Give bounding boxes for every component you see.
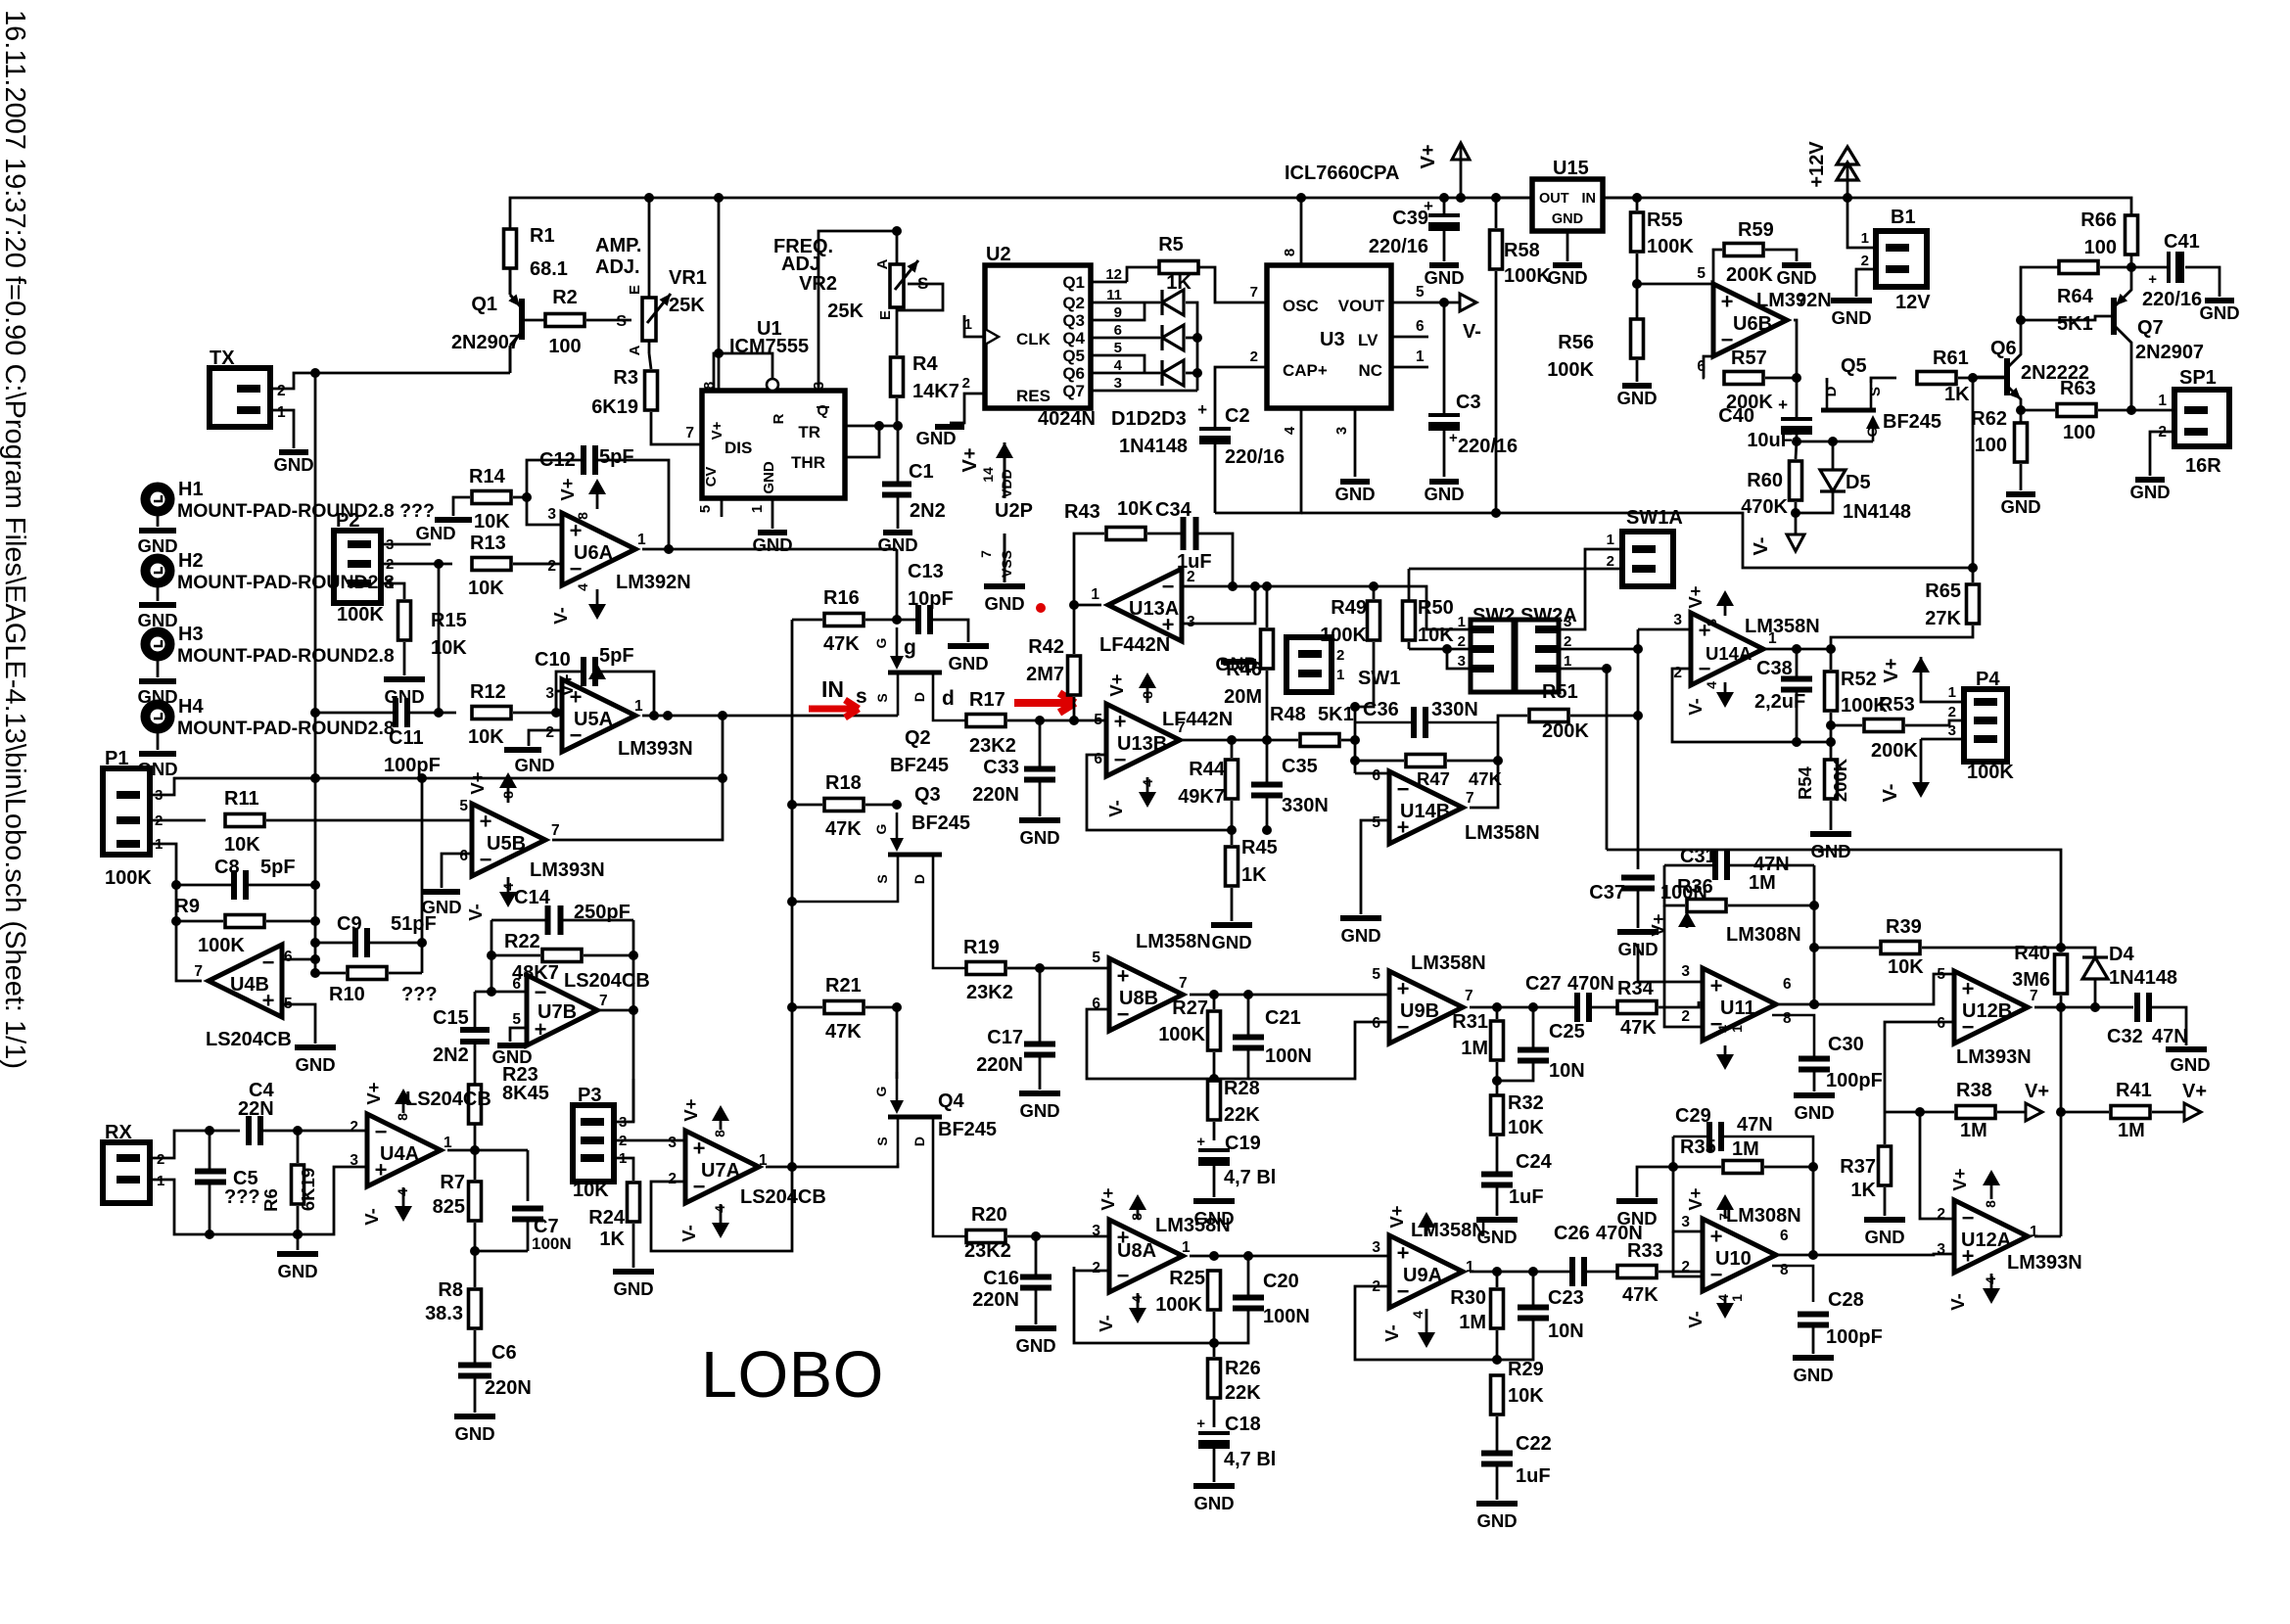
- svg-text:C29: C29: [1675, 1105, 1711, 1127]
- svg-text:GND: GND: [2199, 302, 2239, 323]
- supply V- U14A: [1724, 682, 1727, 693]
- svg-text:1: 1: [1729, 1025, 1745, 1033]
- pin U14B.5 gnd: [1361, 820, 1389, 914]
- svg-text:Q1: Q1: [1062, 273, 1085, 292]
- resistor R32 10K: [1491, 1095, 1504, 1135]
- svg-text:1: 1: [1336, 667, 1344, 683]
- svg-text:LM393N: LM393N: [530, 859, 605, 881]
- supply V- U5B (pin4): [507, 877, 510, 893]
- svg-text:1uF: 1uF: [1509, 1186, 1544, 1208]
- svg-text:10K: 10K: [1508, 1117, 1544, 1138]
- svg-text:C16: C16: [983, 1268, 1019, 1289]
- mount pad H2: [146, 559, 170, 583]
- op-amp U7B LS204CB: [527, 975, 597, 1045]
- svg-text:R49: R49: [1331, 597, 1367, 619]
- svg-text:47N: 47N: [1737, 1114, 1773, 1136]
- svg-text:200K: 200K: [1542, 720, 1589, 742]
- svg-text:ICL7660CPA: ICL7660CPA: [1285, 162, 1399, 184]
- resistor R42 2M7: [1068, 656, 1081, 695]
- supply V+ P4: [1912, 657, 1930, 673]
- svg-text:GND: GND: [415, 523, 455, 543]
- svg-text:GND: GND: [984, 593, 1024, 614]
- wire U8A.2 to R25 node: [1073, 1267, 1076, 1271]
- svg-text:GND: GND: [1015, 1335, 1055, 1356]
- supply V- U6A: [596, 589, 599, 605]
- svg-text:100K: 100K: [1155, 1294, 1202, 1316]
- svg-text:R5: R5: [1158, 234, 1184, 255]
- svg-text:V+: V+: [363, 1082, 384, 1104]
- wire U13A out: [1074, 604, 1101, 607]
- svg-text:R11: R11: [224, 788, 259, 810]
- svg-text:VSS: VSS: [999, 550, 1014, 578]
- svg-text:C35: C35: [1282, 756, 1318, 777]
- svg-text:V-: V-: [1381, 1324, 1402, 1341]
- svg-text:+: +: [1197, 400, 1207, 419]
- resistor R9 100K: [225, 915, 264, 928]
- svg-text:+: +: [480, 810, 492, 834]
- wire TX pin2 to Q1 collector: [270, 373, 510, 389]
- svg-text:C40: C40: [1718, 405, 1754, 427]
- svg-text:7: 7: [1716, 1213, 1732, 1221]
- wire U8A out: [1190, 1255, 1214, 1258]
- wire P2.1 to R15: [381, 583, 404, 599]
- svg-text:R53: R53: [1879, 694, 1915, 716]
- svg-text:GND: GND: [514, 755, 554, 775]
- svg-text:49K7: 49K7: [1178, 786, 1225, 808]
- svg-text:10K: 10K: [573, 1180, 609, 1201]
- svg-text:LF442N: LF442N: [1162, 709, 1233, 730]
- svg-text:4: 4: [395, 1188, 410, 1196]
- svg-text:C1: C1: [909, 461, 934, 483]
- resistor R52 100K: [1825, 672, 1838, 711]
- svg-text:2: 2: [350, 1119, 358, 1136]
- svg-text:2: 2: [1336, 647, 1344, 664]
- svg-text:BF245: BF245: [1883, 411, 1941, 433]
- svg-text:R28: R28: [1224, 1078, 1260, 1099]
- svg-text:8: 8: [1783, 1010, 1792, 1027]
- svg-text:220N: 220N: [972, 1289, 1019, 1311]
- svg-text:10uF: 10uF: [1747, 430, 1793, 451]
- svg-text:16R: 16R: [2185, 455, 2221, 477]
- pin U8B.6 feedback: [1087, 1009, 1214, 1079]
- svg-text:V+: V+: [1098, 1187, 1118, 1210]
- wire U9B out: [1470, 1006, 1574, 1009]
- wire U6A out: [642, 548, 897, 551]
- svg-text:6: 6: [1416, 318, 1425, 335]
- svg-text:GND: GND: [1810, 841, 1850, 861]
- svg-text:100K: 100K: [1504, 265, 1551, 287]
- resistor R53 200K: [1864, 719, 1903, 732]
- svg-text:10K: 10K: [1888, 956, 1924, 978]
- svg-text:V+: V+: [1418, 144, 1439, 168]
- svg-text:6: 6: [1780, 1228, 1789, 1244]
- svg-text:5: 5: [512, 1011, 521, 1028]
- svg-text:R32: R32: [1508, 1092, 1544, 1114]
- resistor R10 ???: [348, 967, 387, 980]
- svg-text:1M: 1M: [1960, 1120, 1987, 1141]
- capacitor C25 10N: [1518, 1050, 1549, 1061]
- op-amp U13A LF442N: [1108, 569, 1182, 641]
- svg-text:C41: C41: [2164, 231, 2200, 253]
- svg-text:SW1A: SW1A: [1626, 507, 1683, 529]
- svg-text:S: S: [616, 313, 627, 330]
- resistor R58: [1490, 230, 1503, 269]
- svg-text:1: 1: [637, 532, 646, 548]
- svg-text:1K: 1K: [1850, 1180, 1876, 1201]
- svg-text:11: 11: [1106, 287, 1122, 303]
- svg-text:NC: NC: [1358, 361, 1382, 380]
- resistor R35 1M: [1723, 1161, 1762, 1174]
- svg-text:C30: C30: [1828, 1034, 1864, 1055]
- svg-text:1: 1: [1948, 684, 1956, 701]
- svg-text:3: 3: [545, 685, 554, 702]
- svg-text:R26: R26: [1225, 1358, 1261, 1379]
- op-amp U4B LS204CB: [209, 945, 282, 1017]
- svg-text:−: −: [262, 951, 275, 975]
- wire P1.1 down: [150, 844, 176, 921]
- wire C1 node down to Q2 gate: [896, 549, 899, 620]
- ic U1 ICM7555: [702, 391, 845, 498]
- wire RX.1 bottom line: [150, 1167, 367, 1234]
- svg-text:R62: R62: [1971, 408, 2007, 430]
- svg-text:9: 9: [1114, 304, 1122, 321]
- svg-text:+: +: [693, 1137, 706, 1161]
- svg-text:U10: U10: [1715, 1248, 1752, 1270]
- svg-text:V-: V-: [361, 1208, 382, 1225]
- svg-text:2N2: 2N2: [910, 500, 946, 522]
- svg-text:SW1: SW1: [1358, 668, 1400, 689]
- svg-text:+: +: [1114, 710, 1127, 734]
- wire Q5 drain: [1826, 378, 1829, 383]
- svg-text:100: 100: [1975, 435, 2007, 456]
- vertical node x322 (C8/R9/C9/U4B): [314, 373, 317, 973]
- svg-text:4,7 Bl: 4,7 Bl: [1224, 1449, 1276, 1470]
- svg-text:1M: 1M: [1732, 1138, 1759, 1160]
- svg-text:8: 8: [1282, 249, 1298, 256]
- pin U4B.5 wire to gnd: [282, 1004, 315, 1044]
- svg-text:1: 1: [2158, 393, 2167, 409]
- svg-text:R17: R17: [969, 689, 1005, 711]
- svg-text:R50: R50: [1418, 597, 1454, 619]
- resistor R46 20M: [1261, 629, 1274, 669]
- wire U14A out: [1763, 648, 1831, 651]
- svg-text:VR2: VR2: [799, 273, 837, 295]
- svg-text:2: 2: [1948, 704, 1956, 720]
- svg-text:7: 7: [1798, 293, 1806, 309]
- wire U6B out: [1794, 320, 1797, 378]
- wire U14B out: [1470, 761, 1498, 808]
- svg-text:7: 7: [1466, 790, 1474, 807]
- svg-text:R56: R56: [1558, 332, 1594, 353]
- svg-text:OUT: OUT: [1539, 191, 1569, 207]
- wire Q6 collector to Q7 base: [2021, 316, 2111, 320]
- resistor R45 1K: [1226, 847, 1238, 886]
- pin U3.2 CAP+: [1215, 367, 1267, 419]
- svg-text:4,7 Bl: 4,7 Bl: [1224, 1167, 1276, 1188]
- svg-text:8: 8: [1129, 1213, 1145, 1221]
- svg-text:+: +: [1424, 197, 1433, 215]
- resistor R7 825: [469, 1182, 482, 1221]
- svg-text:220/16: 220/16: [1458, 436, 1518, 457]
- resistor R61: [1917, 372, 1956, 385]
- svg-text:5pF: 5pF: [260, 857, 296, 878]
- svg-text:10K: 10K: [431, 637, 467, 659]
- supply V+ U13B: [1146, 687, 1149, 703]
- svg-text:1K: 1K: [1166, 272, 1192, 294]
- svg-text:CLK: CLK: [1016, 330, 1052, 348]
- svg-text:6: 6: [1783, 976, 1792, 993]
- svg-text:R43: R43: [1064, 501, 1100, 523]
- svg-text:U9B: U9B: [1400, 1000, 1439, 1022]
- svg-text:1: 1: [444, 1135, 452, 1151]
- svg-text:GND: GND: [915, 428, 956, 448]
- svg-text:LS204CB: LS204CB: [206, 1029, 292, 1050]
- svg-text:12: 12: [1105, 266, 1122, 283]
- svg-text:D1D2D3: D1D2D3: [1111, 408, 1187, 430]
- resistor R30 1M: [1491, 1289, 1504, 1328]
- svg-text:V-: V-: [1947, 1293, 1968, 1310]
- svg-text:825: 825: [433, 1196, 465, 1218]
- svg-text:6: 6: [1372, 1015, 1380, 1032]
- svg-text:1: 1: [634, 698, 643, 715]
- svg-text:GND: GND: [761, 461, 777, 494]
- svg-text:GND: GND: [752, 534, 792, 555]
- svg-text:47N: 47N: [2152, 1026, 2188, 1047]
- svg-text:C26: C26: [1554, 1223, 1590, 1244]
- pin U10.8 comp to C28: [1772, 1266, 1813, 1302]
- svg-text:8K45: 8K45: [502, 1083, 549, 1104]
- svg-text:TR: TR: [798, 423, 820, 441]
- svg-text:C37: C37: [1589, 882, 1625, 904]
- wires U15: [1496, 197, 1532, 200]
- svg-text:8: 8: [1780, 1262, 1789, 1278]
- svg-text:25K: 25K: [827, 301, 864, 322]
- pin U13B.5: [1074, 719, 1106, 722]
- pin U3.1: [1391, 366, 1428, 369]
- resistor R55: [1631, 212, 1644, 252]
- ground C41: [2205, 298, 2234, 303]
- svg-text:U4A: U4A: [380, 1143, 419, 1165]
- svg-text:CV: CV: [703, 467, 720, 487]
- svg-text:5: 5: [1937, 966, 1945, 983]
- svg-text:GND: GND: [1211, 932, 1251, 952]
- svg-text:8: 8: [575, 512, 590, 520]
- svg-text:S: S: [874, 874, 890, 883]
- svg-text:LM358N: LM358N: [1465, 822, 1540, 844]
- svg-text:V+: V+: [557, 478, 578, 500]
- wire R55-R56 junction to U6B+: [1637, 283, 1713, 286]
- svg-text:R61: R61: [1933, 348, 1969, 369]
- svg-text:LM358N: LM358N: [1136, 931, 1211, 952]
- svg-text:−: −: [1162, 575, 1175, 599]
- resistor R11 10K: [225, 814, 264, 827]
- supply V+ R41: [2184, 1103, 2201, 1121]
- svg-text:R13: R13: [470, 533, 506, 554]
- svg-text:100K: 100K: [1547, 359, 1594, 381]
- svg-text:s: s: [856, 685, 867, 708]
- svg-text:10K: 10K: [474, 511, 510, 533]
- svg-text:R41: R41: [2116, 1080, 2152, 1101]
- svg-text:100: 100: [2084, 237, 2117, 258]
- svg-text:C24: C24: [1516, 1151, 1553, 1173]
- svg-text:C21: C21: [1265, 1007, 1301, 1029]
- transistor Q7 2N2907: [2111, 298, 2117, 335]
- svg-text:C18: C18: [1225, 1414, 1261, 1435]
- svg-text:220N: 220N: [972, 784, 1019, 806]
- wire P2.2 to R13: [381, 563, 452, 566]
- wire P2.3 stub: [381, 543, 431, 546]
- svg-text:V-: V-: [678, 1225, 699, 1241]
- op-amp U12B LM393N: [1954, 971, 2028, 1044]
- pin U13A.2 wire: [1182, 585, 1233, 588]
- resistor R2: [545, 314, 584, 327]
- svg-text:23K2: 23K2: [964, 1240, 1011, 1262]
- transistor Q6 2N2222: [2004, 358, 2010, 395]
- svg-text:BF245: BF245: [890, 755, 949, 776]
- svg-text:V+: V+: [2182, 1081, 2207, 1102]
- svg-text:R40: R40: [2014, 943, 2050, 964]
- svg-text:C6: C6: [491, 1342, 517, 1364]
- svg-text:R19: R19: [963, 937, 1000, 958]
- svg-text:U5B: U5B: [487, 833, 526, 855]
- resistor R54 200K: [1825, 760, 1838, 799]
- svg-text:V+: V+: [1386, 1205, 1407, 1228]
- svg-text:LM308N: LM308N: [1726, 924, 1801, 946]
- capacitor C17 220N: [1039, 968, 1042, 1044]
- svg-text:U14B: U14B: [1400, 801, 1450, 822]
- resistor R23 8K45: [469, 1085, 482, 1124]
- pin U6B.6 and R57: [1704, 356, 1713, 378]
- resistor R25 100K: [1208, 1271, 1221, 1310]
- svg-text:+12V: +12V: [1806, 141, 1828, 188]
- svg-text:−: −: [1397, 777, 1410, 802]
- svg-text:MOUNT-PAD-ROUND2.8: MOUNT-PAD-ROUND2.8: [177, 645, 395, 667]
- resistor R57: [1724, 372, 1763, 385]
- svg-text:D5: D5: [1846, 472, 1871, 493]
- svg-text:C25: C25: [1549, 1021, 1585, 1043]
- svg-text:U12B: U12B: [1962, 1000, 2012, 1022]
- svg-text:1: 1: [1607, 532, 1614, 548]
- svg-text:R6: R6: [260, 1188, 281, 1212]
- pin U11.3 wire: [1638, 944, 1703, 982]
- svg-text:R55: R55: [1647, 209, 1683, 231]
- svg-text:GND: GND: [1334, 484, 1375, 504]
- svg-text:Q2: Q2: [1062, 294, 1085, 312]
- connector SW1: [1286, 637, 1332, 692]
- svg-text:4: 4: [1140, 779, 1155, 787]
- svg-text:10K: 10K: [468, 578, 504, 599]
- supply V+ U6A: [596, 493, 599, 509]
- svg-text:VR1: VR1: [669, 267, 707, 289]
- svg-text:R57: R57: [1731, 348, 1767, 369]
- pin U7A.2 feedback: [651, 1167, 792, 1251]
- svg-text:B1: B1: [1891, 207, 1916, 228]
- supply V- U9A: [1425, 1309, 1428, 1333]
- svg-text:470K: 470K: [1741, 496, 1788, 518]
- svg-text:+: +: [1196, 1415, 1205, 1432]
- resistor R27 100K: [1208, 1011, 1221, 1050]
- svg-text:GND: GND: [613, 1278, 653, 1299]
- svg-text:R24: R24: [588, 1207, 626, 1229]
- svg-text:2M7: 2M7: [1026, 664, 1064, 685]
- svg-text:−: −: [1962, 1206, 1975, 1230]
- ground U2: [935, 424, 964, 430]
- svg-text:GND: GND: [1794, 1102, 1834, 1123]
- pin U3.5 VOUT: [1391, 302, 1459, 304]
- svg-text:1M: 1M: [1749, 872, 1776, 894]
- svg-text:MOUNT-PAD-ROUND2.8: MOUNT-PAD-ROUND2.8: [177, 718, 395, 739]
- svg-text:6K19: 6K19: [298, 1168, 318, 1211]
- svg-text:7: 7: [194, 963, 203, 980]
- pin U14B.6: [1355, 772, 1389, 775]
- pin U1.5 stub: [721, 498, 724, 517]
- svg-text:2: 2: [1681, 1259, 1690, 1276]
- svg-text:5: 5: [1092, 950, 1100, 966]
- svg-text:6: 6: [459, 848, 468, 864]
- svg-text:−: −: [1117, 1264, 1130, 1288]
- svg-text:???: ???: [224, 1186, 260, 1208]
- resistor R6 6K19: [292, 1165, 304, 1204]
- svg-text:R20: R20: [971, 1204, 1007, 1226]
- wire out to R41 node: [2060, 1007, 2063, 1236]
- wire U5A out to Q2 source (IN line): [642, 715, 898, 718]
- svg-text:V+: V+: [1106, 673, 1127, 696]
- svg-text:LS204CB: LS204CB: [564, 970, 650, 992]
- supply V- U12A: [1990, 1274, 1993, 1289]
- ground U15: [1553, 262, 1582, 268]
- resistor R18 47K: [824, 799, 864, 812]
- resistor R64 5K1: [2059, 261, 2098, 274]
- svg-text:220/16: 220/16: [2142, 289, 2202, 310]
- svg-text:R44: R44: [1189, 759, 1226, 780]
- pin U8B.5: [1108, 967, 1111, 970]
- svg-text:1: 1: [277, 404, 286, 421]
- svg-text:GND: GND: [1019, 827, 1059, 848]
- svg-text:R27: R27: [1172, 998, 1208, 1019]
- svg-text:D: D: [911, 1137, 927, 1146]
- supply V- R60: [1787, 534, 1804, 551]
- svg-text:C2: C2: [1225, 405, 1250, 427]
- svg-text:R22: R22: [504, 931, 540, 952]
- svg-text:D: D: [911, 874, 927, 884]
- svg-text:1: 1: [1458, 614, 1466, 630]
- svg-text:3: 3: [1187, 614, 1195, 630]
- svg-text:8: 8: [1704, 619, 1719, 626]
- svg-text:U5A: U5A: [574, 709, 613, 730]
- resistor R34 47K: [1617, 1001, 1657, 1014]
- resistor R50 10K: [1403, 601, 1416, 640]
- wire Q6 base: [1973, 376, 2007, 379]
- svg-text:Q2: Q2: [905, 727, 931, 749]
- svg-text:−: −: [375, 1120, 388, 1144]
- svg-text:+: +: [2148, 271, 2157, 288]
- svg-text:470N: 470N: [1567, 973, 1614, 995]
- svg-text:U3: U3: [1320, 329, 1345, 350]
- wire C7 bottom to R7: [475, 1250, 528, 1253]
- svg-text:R12: R12: [470, 681, 506, 703]
- wire SW2 pin3: [1447, 649, 1471, 669]
- svg-text:6: 6: [284, 949, 293, 965]
- svg-text:GND: GND: [1476, 1510, 1517, 1531]
- svg-text:100N: 100N: [532, 1234, 572, 1253]
- supply V+ U5A: [596, 670, 599, 675]
- svg-text:10N: 10N: [1549, 1060, 1585, 1082]
- svg-text:U13B: U13B: [1117, 733, 1167, 755]
- svg-text:220/16: 220/16: [1225, 446, 1285, 468]
- svg-text:C28: C28: [1828, 1289, 1864, 1311]
- svg-text:LM393N: LM393N: [1956, 1046, 2032, 1068]
- svg-text:4: 4: [1410, 1311, 1425, 1319]
